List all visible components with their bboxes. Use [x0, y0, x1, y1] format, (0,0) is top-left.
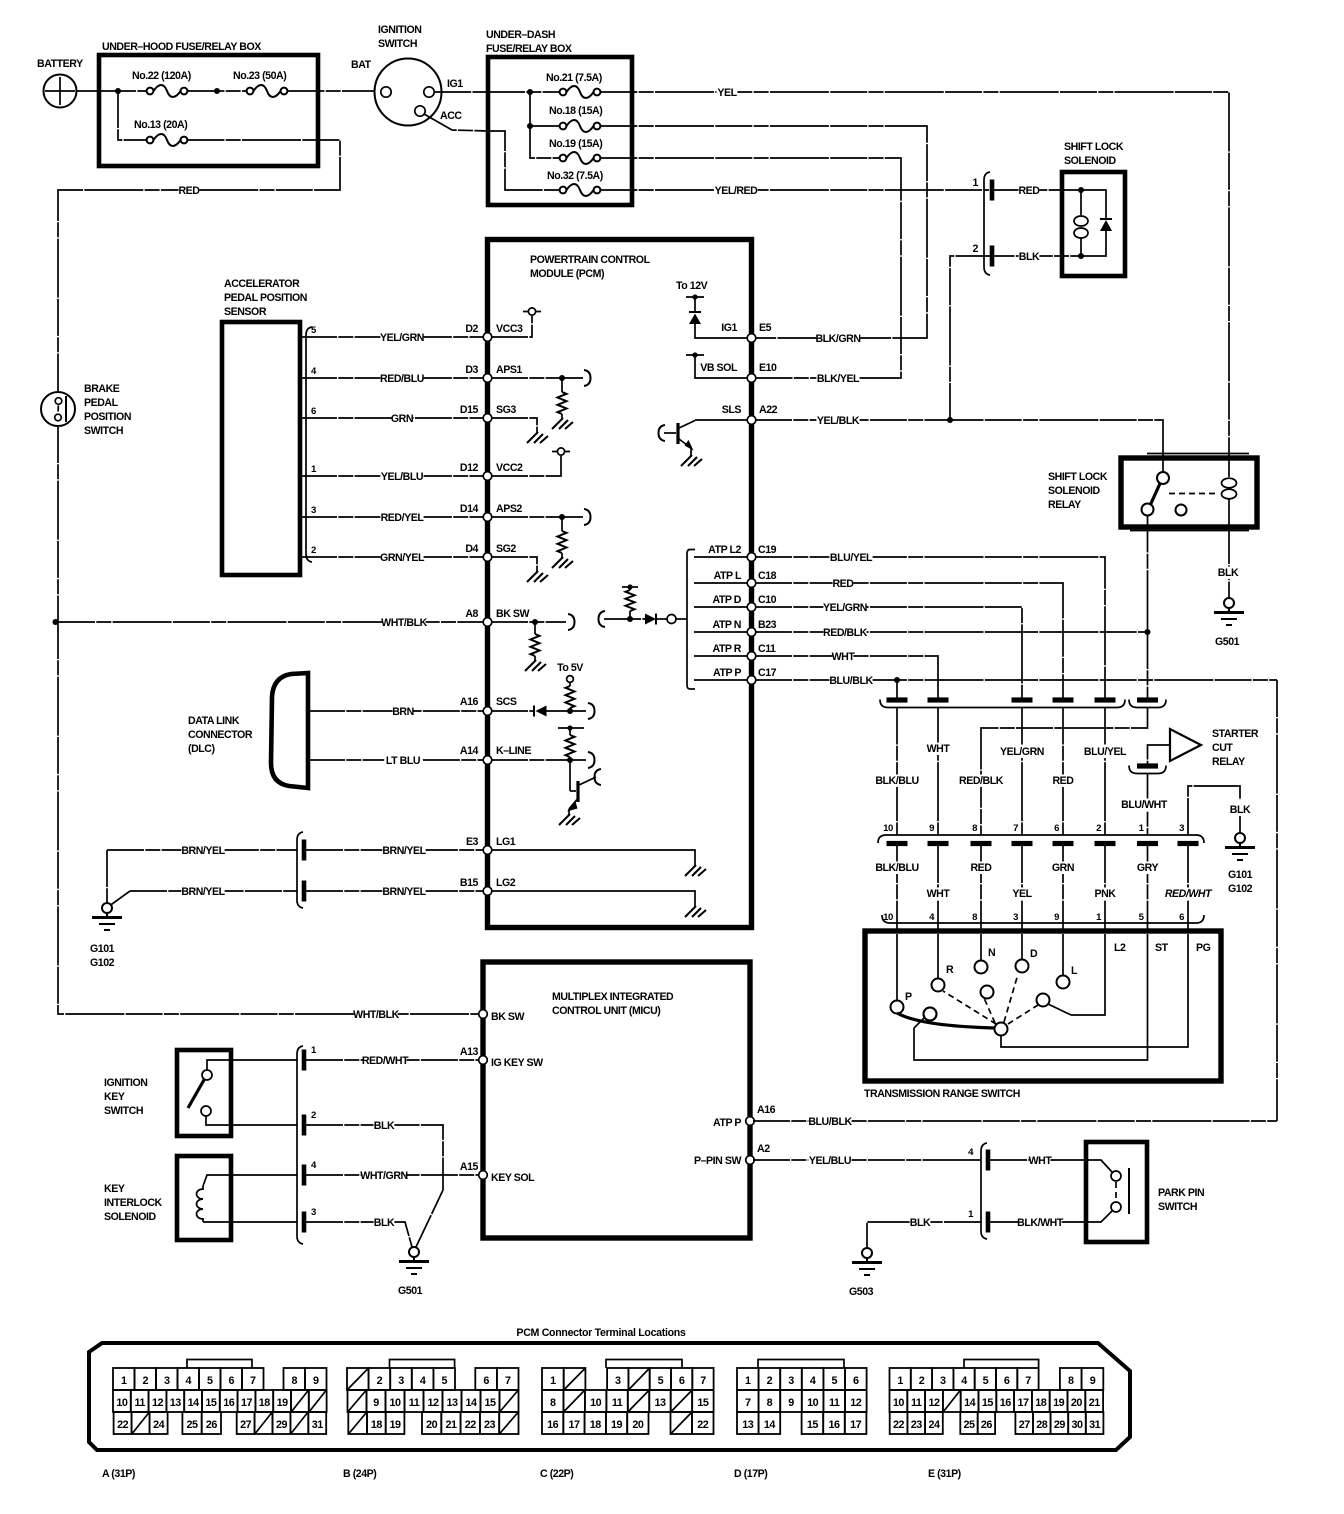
svg-text:ATP R: ATP R: [712, 643, 741, 655]
wire RED/WHT key switch to MICU A13: [207, 1045, 543, 1071]
svg-text:SWITCH: SWITCH: [104, 1105, 143, 1117]
svg-text:9: 9: [929, 823, 934, 834]
svg-text:3: 3: [1179, 823, 1184, 834]
relay actuation dashed link: [1169, 493, 1216, 495]
svg-text:LG2: LG2: [496, 877, 516, 889]
svg-text:GRN/YEL: GRN/YEL: [380, 552, 425, 564]
wire WHT to range switch connector: [927, 708, 951, 836]
svg-text:SWITCH: SWITCH: [378, 38, 417, 50]
svg-text:3: 3: [940, 1375, 946, 1387]
svg-text:14: 14: [764, 1419, 776, 1431]
pin D3 APS1: [465, 364, 522, 382]
pin A22 SLS with driver transistor Q1: [695, 404, 778, 424]
svg-text:BLK/GRN: BLK/GRN: [815, 333, 860, 345]
svg-text:31: 31: [312, 1419, 324, 1431]
svg-text:CONTROL UNIT (MICU): CONTROL UNIT (MICU): [552, 1005, 660, 1017]
ignition switch: [351, 24, 463, 126]
svg-text:GRY: GRY: [1137, 862, 1159, 874]
continuation hook ATP common: [599, 611, 606, 627]
continuation hook K-LINE: [588, 752, 595, 768]
svg-text:7: 7: [1013, 823, 1018, 834]
svg-text:D2: D2: [465, 323, 478, 335]
shift lock solenoid relay: [1048, 454, 1257, 531]
svg-text:No.18 (15A): No.18 (15A): [549, 105, 602, 117]
svg-text:TRANSMISSION RANGE SWITCH: TRANSMISSION RANGE SWITCH: [864, 1088, 1020, 1100]
pin 4: [986, 1150, 991, 1171]
svg-text:ACCELERATOR: ACCELERATOR: [224, 278, 300, 290]
svg-text:29: 29: [276, 1419, 288, 1431]
svg-text:IG KEY SW: IG KEY SW: [491, 1057, 543, 1069]
shift lock solenoid: [1062, 141, 1125, 276]
svg-text:ACC: ACC: [440, 110, 462, 122]
pin C17 ATP P: [694, 667, 777, 684]
wire IG1 bus inside under-dash box: [488, 91, 560, 93]
svg-text:25: 25: [187, 1419, 199, 1431]
junction node fuse18: [527, 123, 533, 129]
svg-text:P: P: [905, 991, 912, 1003]
wire down to MICU BK SW: [58, 622, 483, 1014]
svg-text:To 5V: To 5V: [557, 662, 583, 674]
svg-text:10: 10: [116, 1397, 128, 1409]
svg-text:IG1: IG1: [721, 322, 737, 334]
junction node WHT/BLK: [53, 619, 59, 625]
pin D2 VCC3: [465, 323, 523, 341]
svg-text:16: 16: [1000, 1397, 1012, 1409]
svg-text:14: 14: [188, 1397, 200, 1409]
svg-text:ATP D: ATP D: [712, 594, 741, 606]
svg-text:4: 4: [185, 1375, 191, 1387]
ground G501 relay: [1214, 598, 1244, 648]
contact R: [932, 934, 955, 992]
svg-text:BRN/YEL: BRN/YEL: [382, 845, 426, 857]
wire fuse13 out / RED feed: [64, 140, 340, 190]
wire RED/YEL sensor pin 3 to PCM D14: [300, 505, 484, 524]
svg-text:23: 23: [484, 1419, 496, 1431]
svg-text:B23: B23: [758, 619, 777, 631]
svg-text:BLU/BLK: BLU/BLK: [808, 1116, 852, 1128]
svg-text:30: 30: [1071, 1419, 1083, 1431]
svg-text:BLK: BLK: [1019, 251, 1040, 263]
svg-text:A16: A16: [757, 1104, 776, 1116]
connector A terminal grid: [102, 1360, 327, 1481]
svg-text:R: R: [946, 964, 954, 976]
svg-text:22: 22: [117, 1419, 129, 1431]
pin C18 ATP L: [694, 570, 777, 587]
svg-text:BLU/YEL: BLU/YEL: [830, 552, 873, 564]
svg-text:BLK: BLK: [1230, 804, 1251, 816]
svg-text:11: 11: [409, 1397, 420, 1409]
svg-text:BRN: BRN: [392, 706, 414, 718]
relay coil L2: [1222, 458, 1237, 527]
ground G101 G102 right: [1225, 833, 1255, 895]
junction node bus/No.13: [115, 88, 121, 94]
svg-text:BLK/WHT: BLK/WHT: [1017, 1217, 1064, 1229]
svg-text:16: 16: [828, 1419, 840, 1431]
svg-text:BLK/YEL: BLK/YEL: [817, 373, 860, 385]
svg-text:1: 1: [973, 177, 979, 189]
svg-text:A16: A16: [460, 696, 479, 708]
svg-text:UNDER–DASH: UNDER–DASH: [486, 29, 555, 41]
svg-text:BRN/YEL: BRN/YEL: [181, 886, 225, 898]
ground G501 key area: [398, 1247, 429, 1297]
svg-text:LT BLU: LT BLU: [386, 755, 420, 767]
svg-text:CONNECTOR: CONNECTOR: [188, 729, 253, 741]
svg-text:2: 2: [1096, 823, 1101, 834]
svg-text:MULTIPLEX INTEGRATED: MULTIPLEX INTEGRATED: [552, 991, 674, 1003]
svg-text:RELAY: RELAY: [1048, 499, 1081, 511]
in-line connector C4 bar: [1129, 697, 1166, 707]
svg-text:2: 2: [142, 1375, 148, 1387]
wire BLK ground to connector pin 3: [1188, 786, 1251, 835]
svg-text:BLU/BLK: BLU/BLK: [829, 675, 873, 687]
wire RED/BLK B23 to connector: [755, 627, 1151, 699]
wire BLU/YEL to range switch connector: [1083, 708, 1127, 836]
svg-text:13: 13: [742, 1419, 754, 1431]
transistor Q1 SLS driver: [659, 421, 703, 467]
svg-text:14: 14: [465, 1397, 477, 1409]
under-dash fuse/relay box: [486, 29, 632, 205]
svg-text:G102: G102: [1228, 883, 1253, 895]
pin D14 APS2: [460, 503, 523, 521]
resistor BK SW with ground: [491, 619, 566, 671]
svg-text:SOLENOID: SOLENOID: [1064, 155, 1117, 167]
svg-text:24: 24: [153, 1419, 165, 1431]
fuse No.21 (7.5A): [546, 72, 602, 98]
svg-text:15: 15: [807, 1419, 819, 1431]
wire BRN/YEL row 1: [107, 840, 484, 861]
wire BLK/YEL fuse19 to PCM E10: [600, 158, 901, 385]
svg-text:28: 28: [1036, 1419, 1048, 1431]
pin A16 ATP P MICU: [713, 1104, 776, 1129]
svg-text:SWITCH: SWITCH: [1158, 1201, 1197, 1213]
contact D: [1016, 934, 1039, 973]
svg-text:BLU/WHT: BLU/WHT: [1121, 799, 1168, 811]
svg-text:2: 2: [377, 1375, 383, 1387]
wire BLU/BLK MICU A16: [753, 1116, 1277, 1129]
svg-text:IGNITION: IGNITION: [104, 1077, 147, 1089]
resistor APS1 with ground: [491, 375, 583, 429]
svg-text:KEY SOL: KEY SOL: [491, 1172, 535, 1184]
svg-text:C18: C18: [758, 570, 777, 582]
svg-text:1: 1: [550, 1375, 556, 1387]
connector B terminal grid: [343, 1360, 519, 1481]
svg-text:E (31P): E (31P): [928, 1468, 961, 1480]
svg-text:RED: RED: [1018, 185, 1040, 197]
wire RED to brake pedal position switch: [58, 185, 200, 393]
svg-text:SHIFT LOCK: SHIFT LOCK: [1064, 141, 1124, 153]
svg-text:G501: G501: [398, 1285, 423, 1297]
solenoid coil L1: [1074, 187, 1088, 259]
svg-text:YEL: YEL: [717, 87, 737, 99]
svg-text:31: 31: [1089, 1419, 1101, 1431]
wire battery bus inside box: [99, 90, 147, 92]
svg-text:PEDAL: PEDAL: [84, 397, 119, 409]
svg-text:ATP L2: ATP L2: [708, 544, 741, 556]
wire RED/BLU sensor pin 4 to PCM D3: [300, 366, 484, 385]
svg-text:2: 2: [973, 243, 979, 255]
pull-up terminal VCC3: [491, 308, 541, 337]
pin C19 ATP L2: [694, 544, 777, 561]
wire BLU/BLK C17 to MICU A16: [755, 675, 1277, 1122]
svg-text:8: 8: [550, 1397, 556, 1409]
junction node: [214, 88, 220, 94]
svg-text:RED/BLU: RED/BLU: [380, 373, 424, 385]
svg-text:B15: B15: [460, 877, 479, 889]
svg-text:IGNITION: IGNITION: [378, 24, 421, 36]
pin C11 ATP R: [694, 643, 776, 660]
ground SG2: [491, 557, 548, 582]
pin BK SW MICU: [479, 1010, 525, 1023]
wire fuse22 to fuse23: [187, 90, 246, 92]
svg-text:KEY: KEY: [104, 1183, 125, 1195]
wire GRN/YEL sensor pin 2 to PCM D4: [300, 545, 484, 564]
svg-text:G503: G503: [849, 1286, 874, 1298]
connector C8 park pin switch: [968, 1143, 987, 1239]
svg-text:BLK/BLU: BLK/BLU: [875, 862, 918, 874]
fuse No.23 (50A): [233, 70, 287, 97]
pull-up resistor ATP common: [604, 584, 645, 622]
svg-text:17: 17: [241, 1397, 253, 1409]
svg-text:12: 12: [152, 1397, 164, 1409]
svg-text:21: 21: [445, 1419, 457, 1431]
svg-text:RED/BLK: RED/BLK: [959, 775, 1004, 787]
contact N: [975, 934, 996, 974]
svg-text:10: 10: [893, 1397, 905, 1409]
svg-text:IG1: IG1: [447, 78, 463, 90]
connector C7 key switch and interlock solenoid: [297, 1046, 303, 1244]
svg-text:BLK: BLK: [374, 1217, 395, 1229]
wire WHT C11 to connector: [755, 651, 938, 699]
svg-text:5: 5: [658, 1375, 664, 1387]
svg-text:BRN/YEL: BRN/YEL: [382, 886, 426, 898]
svg-text:YEL/GRN: YEL/GRN: [1000, 746, 1044, 758]
connector bracket accelerator sensor: [306, 327, 312, 562]
svg-text:13: 13: [654, 1397, 666, 1409]
svg-text:A22: A22: [759, 404, 778, 416]
svg-text:BLK/BLU: BLK/BLU: [875, 775, 918, 787]
wire RED to range switch pin 8: [970, 846, 992, 931]
svg-text:14: 14: [964, 1397, 976, 1409]
connector D terminal grid: [734, 1360, 867, 1481]
svg-text:3: 3: [311, 1207, 316, 1218]
svg-text:18: 18: [371, 1419, 383, 1431]
svg-text:22: 22: [697, 1419, 709, 1431]
svg-text:15: 15: [205, 1397, 217, 1409]
svg-text:No.22 (120A): No.22 (120A): [132, 70, 191, 82]
svg-text:No.23 (50A): No.23 (50A): [233, 70, 286, 82]
svg-text:SG2: SG2: [496, 543, 516, 555]
in-line connector C6 transmission range switch harness: [878, 823, 1204, 846]
continuation hook APS1: [584, 370, 591, 386]
svg-text:No.13 (20A): No.13 (20A): [134, 119, 187, 131]
wire YEL/GRN C10 to connector: [755, 602, 1022, 699]
svg-text:21: 21: [1089, 1397, 1101, 1409]
svg-text:18: 18: [259, 1397, 271, 1409]
PCM connector housing outline: [89, 1343, 1130, 1450]
svg-text:BLU/YEL: BLU/YEL: [1084, 746, 1127, 758]
svg-text:6: 6: [1004, 1375, 1010, 1387]
svg-text:2: 2: [767, 1375, 773, 1387]
svg-text:6: 6: [311, 406, 316, 417]
svg-text:12: 12: [850, 1397, 862, 1409]
svg-text:23: 23: [911, 1419, 923, 1431]
svg-text:E3: E3: [466, 836, 479, 848]
svg-text:BK SW: BK SW: [496, 608, 530, 620]
under-hood fuse/relay box: [99, 41, 318, 166]
transistor Q2 K-LINE driver: [559, 760, 601, 825]
svg-text:C11: C11: [758, 643, 776, 655]
svg-text:C17: C17: [758, 667, 777, 679]
svg-text:19: 19: [277, 1397, 289, 1409]
wire GRN to range switch pin 9: [1052, 846, 1074, 931]
svg-text:16: 16: [547, 1419, 559, 1431]
svg-text:FUSE/RELAY BOX: FUSE/RELAY BOX: [486, 43, 572, 55]
svg-text:BLK: BLK: [1218, 567, 1239, 579]
svg-text:24: 24: [928, 1419, 940, 1431]
svg-text:2: 2: [919, 1375, 925, 1387]
svg-text:E5: E5: [759, 322, 772, 334]
pin E5 IG1 with diode to 12V: [676, 280, 772, 342]
fuse No.19 (15A): [549, 138, 602, 164]
svg-text:VCC3: VCC3: [496, 323, 523, 335]
wiper contact node: [924, 1008, 937, 1021]
svg-text:6: 6: [853, 1375, 859, 1387]
node ATP common: [667, 615, 687, 624]
svg-text:SENSOR: SENSOR: [224, 306, 267, 318]
svg-text:SCS: SCS: [496, 696, 517, 708]
contact P: [891, 934, 913, 1014]
svg-text:INTERLOCK: INTERLOCK: [104, 1197, 163, 1209]
svg-text:BRN/YEL: BRN/YEL: [181, 845, 225, 857]
svg-text:YEL/GRN: YEL/GRN: [380, 332, 424, 344]
pin D12 VCC2: [460, 462, 523, 480]
pin A14 K-LINE: [460, 745, 531, 764]
svg-text:PCM Connector Terminal Locatio: PCM Connector Terminal Locations: [516, 1327, 686, 1339]
svg-text:9: 9: [373, 1397, 379, 1409]
svg-text:WHT: WHT: [927, 888, 951, 900]
svg-text:BATTERY: BATTERY: [37, 58, 83, 70]
fuse No.13 (20A): [134, 119, 187, 146]
svg-text:A14: A14: [460, 745, 479, 757]
svg-text:5: 5: [441, 1375, 447, 1387]
svg-text:PG: PG: [1196, 942, 1211, 954]
svg-text:YEL/RED: YEL/RED: [715, 185, 759, 197]
svg-text:1: 1: [121, 1375, 127, 1387]
accelerator pedal position sensor: [222, 278, 307, 575]
svg-text:YEL/GRN: YEL/GRN: [823, 602, 867, 614]
svg-text:11: 11: [612, 1397, 623, 1409]
svg-text:N: N: [988, 947, 995, 959]
svg-text:YEL/BLK: YEL/BLK: [817, 415, 860, 427]
svg-text:(DLC): (DLC): [188, 743, 215, 755]
wire BLU/YEL C19 to connector: [755, 552, 1105, 699]
wire YEL/BLU MICU A2 to park pin switch connector: [753, 1155, 981, 1168]
svg-text:ATP L: ATP L: [714, 570, 742, 582]
svg-text:26: 26: [981, 1419, 993, 1431]
svg-text:RED/WHT: RED/WHT: [1165, 888, 1213, 900]
continuation hook APS2: [584, 509, 591, 525]
svg-text:A8: A8: [465, 608, 478, 620]
pull-up terminal VCC2: [491, 448, 570, 476]
svg-text:D15: D15: [460, 404, 479, 416]
svg-text:4: 4: [961, 1375, 967, 1387]
svg-text:P–PIN SW: P–PIN SW: [694, 1155, 741, 1167]
wire RED to range switch connector: [1052, 708, 1074, 836]
svg-text:3: 3: [398, 1375, 404, 1387]
svg-text:RED/YEL: RED/YEL: [381, 512, 425, 524]
svg-text:BAT: BAT: [351, 59, 372, 71]
pin A8 BK SW: [465, 608, 529, 626]
svg-text:MODULE (PCM): MODULE (PCM): [530, 268, 604, 280]
svg-text:20: 20: [632, 1419, 644, 1431]
svg-text:VB SOL: VB SOL: [700, 362, 738, 374]
svg-text:10: 10: [883, 823, 893, 834]
wire YEL/BLU sensor pin 1 to PCM D12: [300, 464, 484, 483]
wire fuse23 out to ignition switch BAT: [287, 90, 374, 92]
svg-text:6: 6: [679, 1375, 685, 1387]
common PG branch: [995, 934, 1211, 1047]
svg-text:To 12V: To 12V: [676, 280, 708, 292]
svg-text:7: 7: [745, 1397, 751, 1409]
brake pedal position switch: [41, 383, 131, 437]
diode D3 SCS with pull-up to 5V: [491, 662, 586, 717]
svg-text:KEY: KEY: [104, 1091, 125, 1103]
svg-text:POWERTRAIN CONTROL: POWERTRAIN CONTROL: [530, 254, 651, 266]
svg-text:15: 15: [982, 1397, 994, 1409]
svg-text:C10: C10: [758, 594, 777, 606]
wire to fuse No.13: [118, 91, 147, 140]
svg-text:SOLENOID: SOLENOID: [104, 1211, 157, 1223]
pin A16 SCS: [460, 696, 517, 715]
in-line connector C3 bars: [880, 697, 1125, 707]
relay switch contacts: [1142, 458, 1187, 516]
pin E10 VB SOL: [686, 352, 777, 382]
svg-text:20: 20: [1071, 1397, 1083, 1409]
wire YEL/RED fuse32 to connector pin 1: [600, 185, 989, 198]
wire BLK interlock solenoid to ground: [203, 1207, 412, 1247]
svg-text:6: 6: [1054, 823, 1059, 834]
svg-text:D: D: [1030, 948, 1038, 960]
svg-text:19: 19: [390, 1419, 402, 1431]
svg-text:9: 9: [788, 1397, 794, 1409]
svg-text:SOLENOID: SOLENOID: [1048, 485, 1101, 497]
svg-text:STARTER: STARTER: [1212, 728, 1259, 740]
svg-text:PEDAL POSITION: PEDAL POSITION: [224, 292, 307, 304]
svg-text:A15: A15: [460, 1161, 479, 1173]
powertrain control module (PCM): [488, 240, 752, 928]
ground SG3: [491, 418, 548, 443]
svg-text:7: 7: [250, 1375, 256, 1387]
svg-text:G101: G101: [90, 943, 115, 955]
wire bus down to fuse18: [529, 92, 531, 126]
svg-text:SHIFT LOCK: SHIFT LOCK: [1048, 471, 1108, 483]
wire bus down to fuse19: [530, 126, 560, 158]
svg-text:6: 6: [483, 1375, 489, 1387]
svg-text:RED: RED: [970, 862, 992, 874]
svg-text:10: 10: [807, 1397, 819, 1409]
svg-text:20: 20: [426, 1419, 438, 1431]
pin D15 SG3: [460, 404, 516, 422]
svg-text:26: 26: [206, 1419, 218, 1431]
connector bracket at range switch: [882, 915, 1204, 923]
svg-text:BLK: BLK: [374, 1120, 395, 1132]
svg-text:G102: G102: [90, 957, 115, 969]
svg-text:17: 17: [1017, 1397, 1029, 1409]
svg-text:3: 3: [615, 1375, 621, 1387]
continuation hook BK SW: [568, 614, 575, 630]
svg-text:WHT: WHT: [832, 651, 856, 663]
wire RED C18 to connector: [755, 578, 1063, 699]
